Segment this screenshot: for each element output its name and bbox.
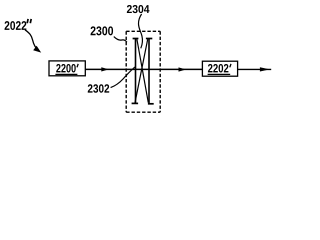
leader arrow from 2022'' pointing into figure [25,30,41,53]
crossing ray (top-right to bottom-left) [135,39,148,102]
dashed enclosure 2300 [126,31,160,112]
leader from 2300 to dashed box [114,37,127,43]
arrowhead on output wire [260,67,270,71]
wire from 2200' through unit 2300 to 2202' [86,68,203,70]
block 2202' [202,61,237,76]
crossing ray (top-left to bottom-right) [137,39,148,102]
leader from 2302 to left element [111,67,136,88]
leader from 2304 to right element [138,14,142,48]
label 2022'' (figure reference numeral) [5,21,27,30]
label 2304 [127,5,150,13]
arrowhead on wire after 2200' [101,67,109,71]
block 2200' [49,61,85,76]
double-prime mark of 2022'' [27,19,31,23]
label 2300 [91,26,114,35]
element 2302 (left lens, I-beam symbol) [132,39,139,104]
output wire of 2202' [238,68,272,70]
label 2302 [88,84,109,92]
arrowhead on wire entering 2202' [179,67,187,71]
element 2304 (right lens, I-beam symbol) [146,39,154,104]
